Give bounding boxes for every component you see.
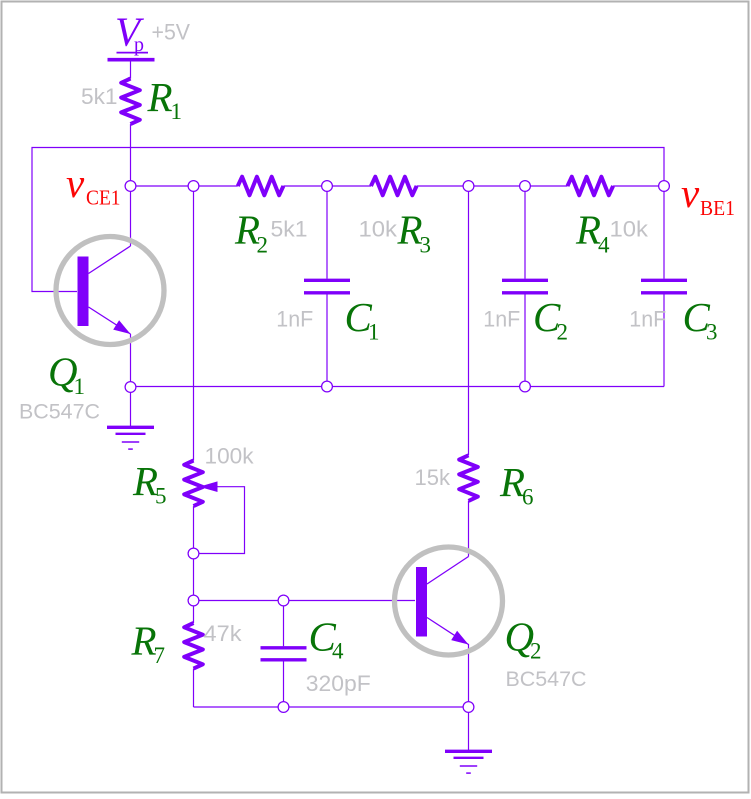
wire: column from node row to R5 xyxy=(193,186,195,461)
capacitor C4 plates xyxy=(261,648,307,660)
wire: R5 wiper loop to lower node xyxy=(199,487,245,554)
svg-text:47k: 47k xyxy=(204,621,243,646)
resistor R3 xyxy=(371,177,417,196)
wire: Q2 emitter down to ground xyxy=(468,644,470,750)
node Q1 emitter / ground rail xyxy=(125,382,136,393)
svg-text:10k: 10k xyxy=(610,217,650,242)
wire: C1 column xyxy=(326,186,328,387)
wire: ground rail (mid) xyxy=(131,386,665,388)
wire: R3 to R4 through R6 and C2 nodes xyxy=(417,185,568,187)
wire: R6 column from node row to R6 and Q2 collector xyxy=(468,186,470,557)
wire: R1 bottom through vCE1 node to Q1 collector xyxy=(130,124,132,246)
wire: Vp bar to R1 top xyxy=(130,61,132,79)
wire: C3 column xyxy=(663,186,665,387)
svg-text:BC547C: BC547C xyxy=(19,401,100,424)
wire: C4 column xyxy=(283,601,285,708)
svg-text:1: 1 xyxy=(368,320,380,345)
node junction C2 top xyxy=(520,181,531,192)
wire: R5 bottom to R7 top xyxy=(193,506,195,623)
svg-text:5k1: 5k1 xyxy=(81,84,118,109)
Vp underline xyxy=(117,52,149,54)
power rail Vp +5V bar xyxy=(108,58,155,62)
transistor Q2 collector lead xyxy=(427,557,469,585)
ground (Q2 emitter) xyxy=(445,751,492,773)
node R5 wiper junction xyxy=(188,548,199,559)
wire: Q2 base rail xyxy=(194,600,416,602)
transistor Q2 emitter lead with arrow xyxy=(427,618,469,645)
svg-text:1: 1 xyxy=(74,374,86,399)
transistor Q2 body circle xyxy=(395,547,503,655)
svg-text:v: v xyxy=(66,160,85,206)
svg-text:320pF: 320pF xyxy=(306,671,371,696)
wire: R4 to vBE1 node xyxy=(613,185,664,187)
svg-text:BE1: BE1 xyxy=(700,196,735,220)
resistor R7 xyxy=(184,623,203,669)
svg-text:CE1: CE1 xyxy=(86,186,121,210)
node vBE1 junction xyxy=(659,181,670,192)
wire: R2 to R3 through C1 node xyxy=(283,185,371,187)
transistor Q1 base bar xyxy=(78,257,89,327)
wire: Q1 emitter down through node to ground xyxy=(130,334,132,427)
transistor Q1 body circle xyxy=(56,237,164,345)
resistor R2 xyxy=(238,177,284,196)
node Q2 emitter junction xyxy=(463,702,474,713)
node vCE1 junction xyxy=(125,181,136,192)
svg-text:6: 6 xyxy=(522,485,534,510)
svg-text:R: R xyxy=(147,74,173,120)
svg-text:BC547C: BC547C xyxy=(506,668,587,691)
svg-text:2: 2 xyxy=(530,639,542,664)
wire: node row vCE1 to R2 xyxy=(131,185,238,187)
node R5/R7/Q2-base junction xyxy=(188,595,199,606)
transistor Q1 collector lead xyxy=(89,246,131,274)
resistor R4 xyxy=(568,177,614,196)
capacitor C1 plates xyxy=(304,280,350,293)
node C2 bottom xyxy=(520,381,531,392)
transistor Q1 emitter lead with arrow xyxy=(89,307,131,334)
resistor R6 xyxy=(459,455,478,501)
svg-text:2: 2 xyxy=(257,232,269,257)
svg-text:v: v xyxy=(681,170,700,216)
svg-text:1nF: 1nF xyxy=(276,307,313,332)
resistor R5 (potentiometer) xyxy=(184,461,203,507)
node junction R2/R3/C1 xyxy=(322,181,333,192)
wire: C2 column xyxy=(524,186,526,387)
node junction R3/R4/R6 xyxy=(463,181,474,192)
svg-text:5k1: 5k1 xyxy=(271,216,308,241)
node C4 top junction xyxy=(278,595,289,606)
svg-text:10k: 10k xyxy=(359,217,399,242)
svg-text:1nF: 1nF xyxy=(629,307,666,332)
transistor Q2 base bar xyxy=(416,567,427,637)
svg-text:15k: 15k xyxy=(415,465,451,490)
wire: feedback loop from vBE1 node along top rail to Q1 base xyxy=(32,148,664,292)
svg-text:p: p xyxy=(134,34,144,56)
resistor R1 xyxy=(121,79,140,125)
node C4 bottom junction xyxy=(278,702,289,713)
svg-text:3: 3 xyxy=(706,320,718,345)
capacitor C2 plates xyxy=(502,280,548,293)
svg-text:7: 7 xyxy=(154,643,166,668)
svg-text:+5V: +5V xyxy=(152,20,191,45)
ground (Q1 emitter) xyxy=(107,427,154,449)
R5 wiper arrow xyxy=(199,481,218,492)
svg-text:1nF: 1nF xyxy=(483,307,520,332)
capacitor C3 plates xyxy=(641,280,687,293)
node C1 bottom xyxy=(322,381,333,392)
node junction R2/R5-column xyxy=(188,181,199,192)
svg-text:1: 1 xyxy=(171,99,183,124)
wire: R7 bottom to bottom rail xyxy=(193,669,195,707)
svg-text:3: 3 xyxy=(420,232,432,257)
wire: bottom rail xyxy=(194,706,469,708)
svg-text:5: 5 xyxy=(155,484,167,509)
svg-text:2: 2 xyxy=(557,320,569,345)
svg-text:4: 4 xyxy=(332,639,344,664)
svg-text:4: 4 xyxy=(598,232,610,257)
svg-text:100k: 100k xyxy=(205,444,255,469)
